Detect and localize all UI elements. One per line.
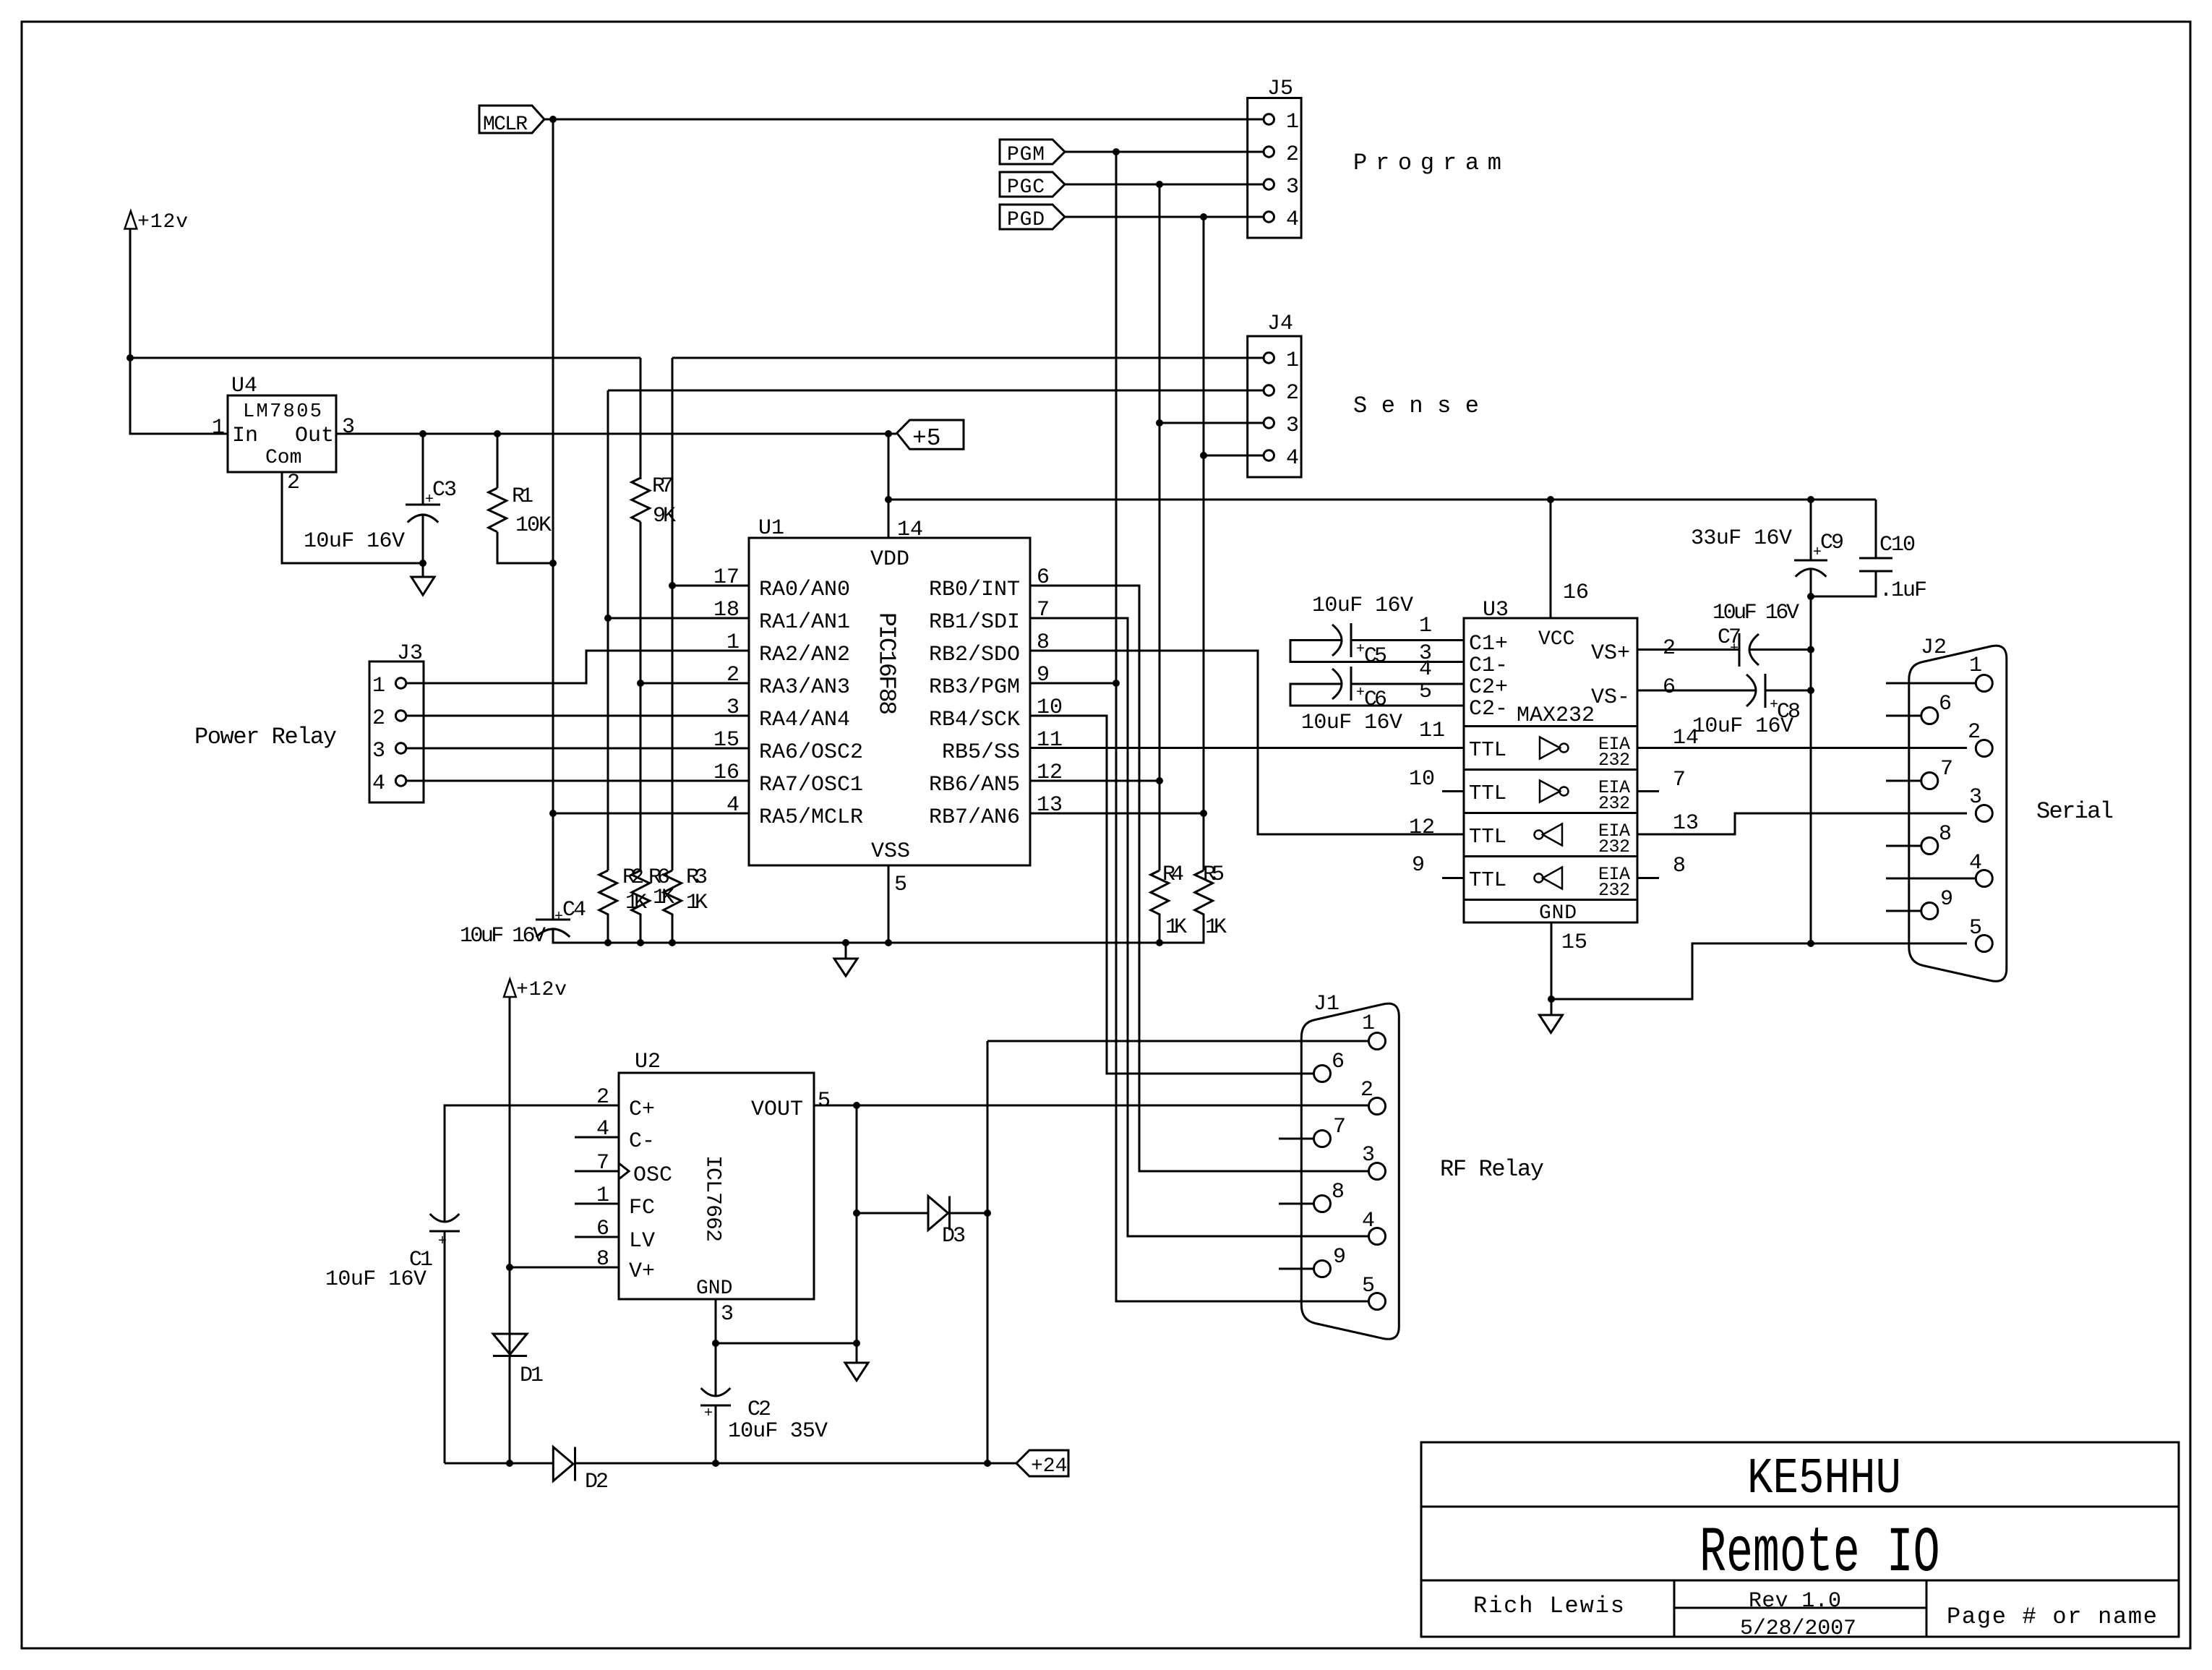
svg-text:+: +: [704, 1405, 713, 1422]
svg-text:8: 8: [1939, 822, 1952, 847]
svg-text:RB2/SDO: RB2/SDO: [929, 643, 1020, 667]
svg-text:10uF 16V: 10uF 16V: [460, 924, 546, 949]
svg-text:+5: +5: [912, 425, 941, 452]
svg-text:RA5/MCLR: RA5/MCLR: [759, 805, 863, 830]
svg-text:1K: 1K: [625, 891, 647, 915]
svg-text:MAX232: MAX232: [1517, 703, 1595, 728]
svg-text:8: 8: [1332, 1180, 1345, 1204]
svg-text:TTL: TTL: [1469, 825, 1506, 849]
svg-text:C3: C3: [432, 478, 457, 502]
svg-text:6: 6: [1939, 692, 1952, 716]
svg-text:U1: U1: [758, 516, 784, 541]
svg-text:9: 9: [1412, 853, 1425, 878]
svg-text:1: 1: [372, 674, 385, 698]
svg-text:10uF 16V: 10uF 16V: [304, 529, 405, 554]
svg-text:RB4/SCK: RB4/SCK: [929, 708, 1020, 732]
svg-text:RA3/AN3: RA3/AN3: [759, 675, 850, 700]
svg-text:RA1/AN1: RA1/AN1: [759, 610, 850, 635]
svg-text:5: 5: [1362, 1274, 1375, 1298]
svg-text:C+: C+: [629, 1097, 655, 1122]
svg-text:GND: GND: [1539, 902, 1577, 925]
svg-text:1: 1: [1419, 614, 1432, 638]
svg-text:C2-: C2-: [1469, 697, 1508, 721]
svg-text:ICL7662: ICL7662: [700, 1155, 725, 1242]
svg-text:RA7/OSC1: RA7/OSC1: [759, 773, 863, 797]
svg-text:RA0/AN0: RA0/AN0: [759, 578, 850, 602]
svg-text:3: 3: [342, 415, 355, 440]
svg-text:RB0/INT: RB0/INT: [929, 578, 1020, 602]
svg-text:12: 12: [1037, 761, 1063, 785]
svg-text:10uF 16V: 10uF 16V: [1712, 601, 1799, 625]
svg-text:232: 232: [1598, 880, 1630, 901]
svg-text:3: 3: [1286, 414, 1299, 438]
svg-text:Remote IO: Remote IO: [1699, 1517, 1940, 1590]
svg-text:Serial: Serial: [2036, 798, 2114, 825]
svg-text:+: +: [1770, 697, 1778, 714]
svg-text:U4: U4: [231, 374, 257, 398]
svg-text:1K: 1K: [653, 886, 674, 910]
svg-text:VSS: VSS: [871, 839, 910, 864]
svg-text:232: 232: [1598, 750, 1630, 771]
svg-text:2: 2: [726, 663, 740, 688]
svg-text:3: 3: [726, 695, 740, 720]
svg-text:+12v: +12v: [137, 211, 188, 234]
svg-text:4: 4: [1286, 207, 1299, 232]
svg-text:1: 1: [1286, 348, 1299, 373]
svg-text:5/28/2007: 5/28/2007: [1740, 1617, 1856, 1641]
svg-text:5: 5: [1969, 916, 1982, 941]
svg-text:16: 16: [1563, 581, 1589, 605]
svg-text:Com: Com: [265, 447, 301, 469]
svg-text:C-: C-: [629, 1129, 655, 1154]
svg-text:9: 9: [1940, 887, 1953, 912]
svg-text:PIC16F88: PIC16F88: [873, 612, 900, 715]
svg-text:2: 2: [1968, 720, 1981, 745]
svg-text:6: 6: [1663, 675, 1676, 700]
svg-text:12: 12: [1409, 815, 1435, 840]
svg-text:D3: D3: [942, 1224, 966, 1249]
svg-text:5: 5: [818, 1089, 831, 1113]
svg-text:11: 11: [1419, 719, 1445, 743]
svg-text:1: 1: [212, 416, 225, 440]
svg-text:3: 3: [372, 739, 385, 763]
svg-text:Page # or name: Page # or name: [1947, 1603, 2157, 1630]
svg-text:3: 3: [1969, 785, 1982, 810]
svg-text:6: 6: [1332, 1050, 1345, 1074]
svg-text:4: 4: [1286, 446, 1299, 471]
svg-text:.1uF: .1uF: [1879, 578, 1927, 603]
svg-text:+: +: [438, 1233, 447, 1250]
svg-text:MCLR: MCLR: [483, 114, 528, 136]
svg-text:TTL: TTL: [1469, 868, 1506, 892]
svg-text:C5: C5: [1364, 644, 1387, 669]
svg-text:J3: J3: [397, 641, 423, 666]
svg-text:3: 3: [1286, 175, 1299, 200]
svg-text:232: 232: [1598, 836, 1630, 857]
svg-text:J5: J5: [1267, 77, 1293, 101]
svg-text:OSC: OSC: [633, 1163, 672, 1188]
svg-text:13: 13: [1673, 811, 1699, 836]
svg-text:1: 1: [596, 1183, 609, 1208]
svg-text:7: 7: [1940, 757, 1953, 782]
svg-text:13: 13: [1037, 793, 1063, 818]
svg-text:RB7/AN6: RB7/AN6: [929, 805, 1020, 830]
svg-text:4: 4: [1969, 851, 1982, 875]
svg-text:1: 1: [1286, 110, 1299, 134]
svg-text:C6: C6: [1364, 688, 1387, 712]
svg-text:15: 15: [713, 728, 740, 753]
svg-text:3: 3: [1362, 1143, 1375, 1168]
svg-text:FC: FC: [629, 1196, 655, 1220]
svg-text:8: 8: [596, 1247, 609, 1272]
svg-text:10K: 10K: [515, 513, 552, 538]
svg-text:RB5/SS: RB5/SS: [942, 740, 1020, 765]
svg-text:Rev 1.0: Rev 1.0: [1749, 1589, 1841, 1614]
svg-text:2: 2: [287, 471, 300, 495]
svg-text:R4: R4: [1162, 862, 1184, 887]
svg-text:V+: V+: [629, 1259, 655, 1284]
svg-text:+24: +24: [1031, 1455, 1067, 1478]
svg-text:VCC: VCC: [1538, 628, 1574, 651]
svg-text:PGC: PGC: [1007, 176, 1045, 199]
svg-text:VS+: VS+: [1591, 641, 1630, 666]
svg-text:10uF 35V: 10uF 35V: [728, 1419, 828, 1444]
svg-text:7: 7: [596, 1151, 609, 1176]
svg-text:10: 10: [1409, 767, 1435, 792]
svg-text:R7: R7: [652, 474, 674, 499]
svg-text:1: 1: [1362, 1011, 1375, 1036]
svg-text:R5: R5: [1203, 862, 1225, 887]
svg-text:9: 9: [1333, 1245, 1346, 1269]
svg-text:C1+: C1+: [1469, 632, 1508, 656]
svg-text:RB6/AN5: RB6/AN5: [929, 773, 1020, 797]
svg-text:2: 2: [1286, 142, 1299, 167]
svg-text:10uF 16V: 10uF 16V: [1312, 594, 1413, 618]
svg-text:6: 6: [596, 1217, 609, 1241]
svg-text:7: 7: [1673, 768, 1686, 792]
svg-text:D1: D1: [520, 1363, 544, 1388]
svg-text:C10: C10: [1879, 533, 1916, 557]
svg-text:4: 4: [1362, 1209, 1375, 1233]
svg-text:VOUT: VOUT: [751, 1097, 803, 1122]
svg-text:RF Relay: RF Relay: [1440, 1156, 1544, 1183]
svg-text:TTL: TTL: [1469, 782, 1506, 805]
svg-text:2: 2: [1360, 1078, 1373, 1102]
svg-text:GND: GND: [696, 1277, 732, 1300]
svg-text:17: 17: [713, 565, 740, 590]
svg-text:2: 2: [1286, 381, 1299, 406]
svg-text:1K: 1K: [1165, 915, 1187, 940]
svg-text:9K: 9K: [653, 504, 676, 528]
svg-text:4: 4: [596, 1117, 609, 1142]
svg-text:C2+: C2+: [1469, 675, 1508, 700]
svg-text:KE5HHU: KE5HHU: [1747, 1451, 1901, 1508]
svg-text:RA6/OSC2: RA6/OSC2: [759, 740, 863, 765]
svg-text:9: 9: [1037, 663, 1050, 688]
svg-text:5: 5: [894, 873, 907, 897]
svg-text:10uF 16V: 10uF 16V: [325, 1267, 426, 1292]
svg-text:J2: J2: [1921, 635, 1947, 660]
svg-text:2: 2: [372, 706, 385, 731]
svg-text:15: 15: [1561, 930, 1587, 955]
svg-text:2: 2: [596, 1085, 609, 1110]
svg-text:LV: LV: [629, 1229, 655, 1254]
svg-text:1: 1: [726, 630, 740, 655]
svg-text:In: In: [232, 424, 258, 448]
svg-text:RA4/AN4: RA4/AN4: [759, 708, 850, 732]
svg-text:4: 4: [372, 771, 385, 796]
svg-text:PGD: PGD: [1007, 209, 1045, 231]
svg-text:+: +: [1730, 641, 1739, 657]
svg-text:C9: C9: [1820, 531, 1844, 555]
svg-text:1K: 1K: [1205, 915, 1227, 940]
svg-text:VDD: VDD: [870, 547, 909, 572]
svg-text:C4: C4: [562, 898, 586, 922]
svg-text:J4: J4: [1267, 312, 1293, 336]
svg-text:16: 16: [713, 761, 740, 785]
svg-text:4: 4: [726, 793, 740, 818]
svg-text:C1-: C1-: [1469, 654, 1508, 678]
svg-text:TTL: TTL: [1469, 738, 1506, 762]
svg-text:U2: U2: [635, 1050, 661, 1074]
svg-text:R1: R1: [512, 484, 533, 509]
svg-text:PGM: PGM: [1007, 144, 1045, 166]
svg-text:J1: J1: [1313, 992, 1339, 1016]
svg-text:Rich Lewis: Rich Lewis: [1473, 1593, 1624, 1619]
svg-text:3: 3: [721, 1302, 734, 1327]
svg-text:10uF 16V: 10uF 16V: [1301, 711, 1402, 735]
svg-text:1: 1: [1969, 654, 1982, 678]
svg-text:1K: 1K: [686, 891, 708, 915]
svg-text:D2: D2: [585, 1470, 609, 1494]
svg-text:+12v: +12v: [516, 979, 567, 1001]
svg-text:RB1/SDI: RB1/SDI: [929, 610, 1020, 635]
svg-text:33uF 16V: 33uF 16V: [1691, 526, 1792, 551]
svg-text:7: 7: [1333, 1115, 1346, 1139]
svg-text:VS-: VS-: [1591, 685, 1630, 710]
svg-text:R3: R3: [686, 865, 708, 890]
svg-text:14: 14: [897, 518, 923, 542]
svg-text:8: 8: [1673, 854, 1686, 878]
svg-text:C2: C2: [747, 1397, 771, 1422]
svg-text:Power Relay: Power Relay: [194, 724, 337, 750]
svg-text:C8: C8: [1777, 700, 1801, 724]
svg-text:Out: Out: [295, 424, 334, 448]
svg-text:R2: R2: [622, 865, 644, 890]
svg-text:232: 232: [1598, 793, 1630, 814]
svg-text:U3: U3: [1483, 598, 1509, 622]
svg-text:RB3/PGM: RB3/PGM: [929, 675, 1020, 700]
svg-text:RA2/AN2: RA2/AN2: [759, 643, 850, 667]
svg-text:18: 18: [713, 598, 740, 622]
